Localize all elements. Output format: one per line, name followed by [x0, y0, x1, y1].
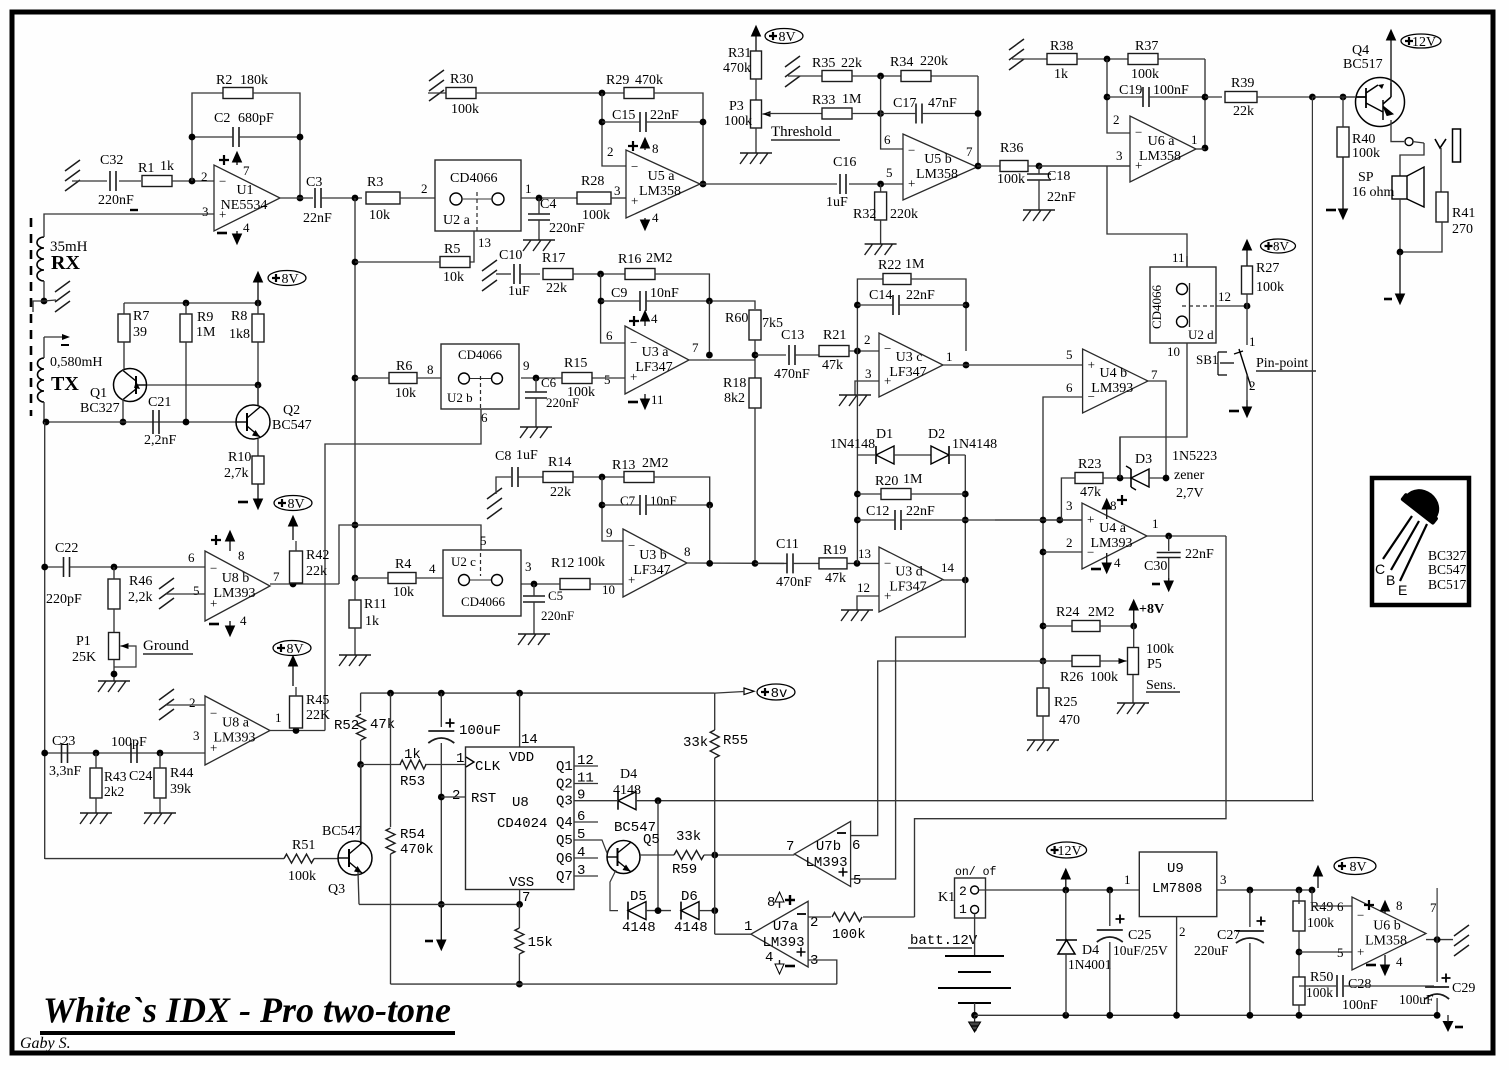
wire [849, 183, 903, 185]
node [157, 750, 164, 757]
svg-text:22k: 22k [550, 485, 571, 500]
resistor R7 39 [118, 314, 130, 342]
svg-text:Q5: Q5 [643, 832, 660, 848]
wire block rails [856, 455, 858, 520]
node [877, 73, 884, 80]
ground R44 [144, 813, 176, 824]
capacitor C32 220nF [110, 171, 116, 191]
resistor R36 100k [1000, 161, 1028, 172]
wire [755, 79, 757, 100]
op-amp U4a LM393 [1082, 503, 1147, 569]
wire out rail [708, 301, 710, 355]
svg-text:SP: SP [1358, 170, 1374, 185]
svg-text:R13: R13 [612, 458, 635, 473]
wire R33 row [767, 113, 822, 115]
capacitor 100uF electrolytic [440, 693, 442, 727]
node [599, 90, 606, 97]
node [1340, 94, 1347, 101]
svg-text:100k: 100k [1256, 280, 1284, 295]
svg-text:470k: 470k [635, 73, 663, 88]
wire Q3 collector [360, 765, 362, 843]
svg-text:R39: R39 [1231, 76, 1254, 91]
svg-text:3: 3 [810, 953, 818, 969]
svg-text:22K: 22K [306, 708, 330, 723]
svg-text:12: 12 [857, 580, 870, 595]
node [963, 302, 970, 309]
node [599, 119, 606, 126]
svg-text:100pF: 100pF [111, 735, 147, 750]
node [962, 517, 969, 524]
svg-text:LM358: LM358 [916, 167, 958, 182]
svg-text:C4: C4 [540, 197, 556, 212]
wire U6b pin5 row [1299, 951, 1352, 953]
svg-text:BC517: BC517 [1428, 577, 1467, 592]
wire pin10 [590, 583, 623, 585]
svg-text:8: 8 [427, 362, 434, 377]
svg-text:6: 6 [481, 410, 488, 425]
svg-text:9: 9 [523, 358, 530, 373]
svg-text:NE5534: NE5534 [221, 198, 268, 213]
op-amp U6a LM358 [1130, 116, 1196, 182]
svg-text:10k: 10k [369, 208, 390, 223]
capacitor C6 220nF [525, 392, 547, 398]
wire U6b out up [1352, 890, 1437, 940]
svg-text:C28: C28 [1348, 977, 1371, 992]
wire [521, 583, 560, 585]
supply rail wire [124, 302, 258, 304]
svg-text:1k: 1k [365, 614, 379, 629]
svg-text:4: 4 [651, 311, 658, 326]
U8b pin8 arrow [229, 539, 231, 551]
TX direction arrow [44, 336, 62, 338]
wire [123, 303, 125, 314]
resistor R53 1k [400, 760, 426, 769]
wire feedback left [192, 93, 224, 181]
wire R53 row [361, 764, 401, 766]
svg-text:13: 13 [858, 546, 871, 561]
svg-text:U6 b: U6 b [1373, 919, 1401, 934]
svg-text:3: 3 [193, 728, 200, 743]
node [183, 300, 190, 307]
op-amp U3d LF347 [879, 547, 943, 612]
svg-text:13: 13 [478, 235, 491, 250]
svg-text:4148: 4148 [674, 920, 708, 936]
svg-text:1k: 1k [160, 159, 174, 174]
wire C11 row [755, 562, 784, 564]
resistor 15k [515, 928, 524, 954]
svg-text:5: 5 [886, 165, 893, 180]
wire VSS row [359, 903, 520, 905]
svg-text:12V: 12V [1412, 35, 1436, 50]
svg-text:1: 1 [1152, 516, 1159, 531]
node [293, 727, 300, 734]
wire U8a pin3 row [45, 752, 205, 754]
wire fb left rail [856, 351, 858, 563]
svg-text:4: 4 [1396, 954, 1403, 969]
node [1247, 1012, 1254, 1019]
switch K1 [955, 878, 986, 918]
wire [355, 577, 388, 579]
svg-text:R38: R38 [1050, 39, 1073, 54]
svg-text:470k: 470k [723, 61, 751, 76]
wire P3 bottom [755, 128, 757, 153]
+8v oval [757, 684, 795, 700]
IC U2a CD4066 [435, 160, 521, 231]
minus arrow 100uF [440, 904, 442, 942]
svg-text:100nF: 100nF [1153, 83, 1189, 98]
wire U5b out [977, 165, 1000, 167]
wire pin12 [1216, 305, 1247, 307]
node [1296, 887, 1303, 894]
svg-text:on/ of: on/ of [955, 866, 997, 879]
svg-text:R33: R33 [812, 93, 835, 108]
resistor 100k (U7a pin2) [832, 913, 862, 922]
svg-text:10nF: 10nF [650, 286, 679, 301]
resistor R1 1k [142, 176, 172, 187]
hatch U8a pin2 [159, 689, 174, 720]
+8v arrow head [744, 688, 754, 695]
svg-text:22k: 22k [546, 281, 567, 296]
node [352, 522, 359, 529]
svg-text:220nF: 220nF [98, 193, 134, 208]
wire U7b pin6 [851, 835, 878, 837]
svg-text:R49: R49 [1310, 900, 1333, 915]
svg-text:R12: R12 [551, 556, 574, 571]
wire TX row [46, 421, 236, 423]
wire [360, 740, 362, 765]
svg-text:4148: 4148 [622, 920, 656, 936]
svg-text:4148: 4148 [613, 783, 641, 798]
resistor R34 220k [901, 71, 931, 82]
wire U2d pin10 [1120, 343, 1187, 478]
resistor R17 22k [543, 269, 573, 280]
wire R23 left [1061, 478, 1075, 520]
resistor R44 39k [154, 768, 166, 798]
resistor R13 2M2 [624, 472, 654, 483]
svg-text:P3: P3 [729, 99, 744, 114]
wire U7a out [715, 933, 751, 935]
RX coil 35mH [37, 237, 44, 281]
svg-text:2,7V: 2,7V [1176, 486, 1204, 501]
node [877, 110, 884, 117]
transistor Q3 BC547 [338, 841, 372, 875]
resistor R28 100k [577, 192, 611, 204]
svg-text:VDD: VDD [509, 750, 534, 766]
resistor R32 220k [875, 192, 887, 220]
node [255, 300, 262, 307]
svg-text:D4: D4 [1082, 943, 1099, 958]
svg-text:1k8: 1k8 [229, 327, 250, 342]
wire battery bottom [974, 1003, 976, 1015]
svg-text:−: − [210, 561, 217, 576]
diode D5 4148 [627, 902, 629, 920]
svg-text:Q7: Q7 [556, 869, 573, 885]
wire D4 node down [657, 801, 659, 911]
svg-text:R60: R60 [725, 311, 748, 326]
node [516, 690, 523, 697]
wire [788, 75, 822, 77]
node [1202, 145, 1209, 152]
wire Q4 emitter to jack [1391, 120, 1404, 142]
svg-text:R31: R31 [728, 46, 751, 61]
svg-text:8V: 8V [287, 497, 304, 512]
svg-text:LM393: LM393 [762, 935, 804, 951]
svg-text:TX: TX [51, 373, 79, 395]
wire Q4 base [1312, 96, 1356, 98]
capacitor C23 3,3nF [62, 743, 68, 763]
svg-text:R59: R59 [672, 862, 697, 878]
resistor R60 7k5 [749, 310, 761, 340]
bottom power rail [975, 1014, 1438, 1016]
node [655, 907, 662, 914]
svg-text:+: + [908, 176, 915, 191]
node [1309, 94, 1316, 101]
svg-text:1N4148: 1N4148 [830, 437, 875, 452]
svg-text:3: 3 [202, 204, 209, 219]
node [963, 362, 970, 369]
wire U7b out [715, 854, 795, 856]
wire U8b out [270, 583, 339, 585]
svg-text:C5: C5 [548, 588, 563, 603]
resistor R22 1M [883, 274, 911, 285]
svg-text:−: − [1135, 125, 1142, 140]
wire R26 row to U7b pin6 riser [851, 661, 1043, 836]
wire [390, 854, 392, 984]
wire Q1 collector [122, 399, 124, 422]
svg-text:2: 2 [452, 788, 460, 804]
potentiometer P1 25K [109, 633, 120, 660]
wire Q2 emitter [257, 439, 259, 456]
svg-text:22nF: 22nF [906, 288, 935, 303]
svg-text:2: 2 [421, 181, 428, 196]
svg-text:4: 4 [429, 561, 436, 576]
node [438, 690, 445, 697]
svg-text:10uF/25V: 10uF/25V [1113, 943, 1168, 958]
hatch U6b out [1454, 925, 1469, 956]
svg-text:U2 a: U2 a [443, 213, 471, 228]
svg-text:220nF: 220nF [546, 395, 579, 410]
IC U8 CD4024 [466, 747, 575, 890]
svg-text:10k: 10k [443, 270, 464, 285]
U4a pin8 arrow [1106, 507, 1108, 519]
+12V oval [1401, 34, 1441, 48]
node [706, 352, 713, 359]
svg-text:1: 1 [1124, 872, 1131, 887]
capacitor C29 100uF [1425, 986, 1449, 988]
svg-text:C14: C14 [869, 288, 892, 303]
svg-text:C17: C17 [893, 96, 916, 111]
resistor R15 100k [562, 373, 592, 384]
svg-text:C27: C27 [1217, 928, 1240, 943]
svg-text:6: 6 [852, 838, 860, 854]
wire [45, 566, 63, 568]
svg-text:R27: R27 [1256, 261, 1279, 276]
IC U9 LM7808 [1139, 852, 1217, 917]
svg-text:R6: R6 [396, 359, 412, 374]
svg-text:D1: D1 [876, 427, 893, 442]
wire U9 pin2 [1176, 917, 1178, 1016]
svg-text:8: 8 [652, 141, 659, 156]
wire [849, 350, 879, 352]
node [1130, 623, 1137, 630]
svg-text:22k: 22k [841, 56, 862, 71]
wire K1 pin2 out [979, 889, 1140, 891]
svg-text:U2 b: U2 b [447, 390, 473, 405]
node [357, 761, 364, 768]
svg-text:D4: D4 [620, 767, 637, 782]
wire R52 to Q3 collector [360, 765, 362, 846]
svg-text:4: 4 [240, 613, 247, 628]
wire tone rail up [1313, 97, 1315, 801]
svg-text:5: 5 [604, 372, 611, 387]
svg-text:C8: C8 [495, 449, 511, 464]
wire [535, 378, 537, 392]
svg-text:1M: 1M [196, 325, 216, 340]
svg-text:+8V: +8V [1139, 602, 1164, 617]
svg-text:1M: 1M [842, 92, 862, 107]
IC U2b CD4066 [441, 344, 519, 409]
wire pin2 branch [602, 93, 626, 166]
svg-text:White`s IDX - Pro two-tone: White`s IDX - Pro two-tone [43, 990, 451, 1030]
node [536, 195, 543, 202]
wire [573, 273, 626, 275]
ground R11 [339, 655, 371, 666]
svg-text:+: + [1357, 944, 1364, 959]
svg-text:R46: R46 [129, 574, 152, 589]
svg-text:3: 3 [525, 559, 532, 574]
node [352, 575, 359, 582]
capacitor C14 22nF [893, 295, 899, 315]
wire SP bottom [1399, 199, 1401, 252]
op-amp U5a LM358 [626, 150, 700, 218]
node [1104, 56, 1111, 63]
wire bottom bus [391, 983, 837, 985]
svg-text:6: 6 [188, 550, 195, 565]
svg-text:100nF: 100nF [1342, 998, 1378, 1013]
svg-text:39: 39 [133, 325, 147, 340]
wire [654, 477, 710, 505]
svg-text:100uF: 100uF [1399, 992, 1434, 1007]
svg-text:U5 b: U5 b [924, 152, 952, 167]
node [962, 491, 969, 498]
resistor R59 33k [674, 851, 704, 860]
hatch ground R38 [1009, 39, 1024, 70]
node [1106, 887, 1113, 894]
transistor pinout inset box [1372, 478, 1469, 605]
transistor Q2 BC547 [236, 405, 270, 439]
resistor R43 2k2 [90, 768, 102, 798]
node [1104, 94, 1111, 101]
TX coil 0,580mH [38, 358, 45, 402]
svg-text:4: 4 [1114, 555, 1121, 570]
minus arrow R40 [1342, 157, 1344, 211]
svg-text:D5: D5 [630, 889, 647, 905]
svg-text:7: 7 [692, 340, 699, 355]
minus arrow SP [1399, 252, 1401, 296]
svg-text:33k: 33k [676, 829, 701, 845]
svg-text:8V: 8V [1349, 860, 1366, 875]
svg-text:C10: C10 [499, 248, 522, 263]
wire [518, 954, 520, 984]
capacitor C16 1uF [840, 174, 846, 194]
wire Q5 emitter [610, 870, 618, 911]
svg-text:C3: C3 [306, 175, 322, 190]
svg-text:5: 5 [853, 873, 861, 889]
svg-text:U5 a: U5 a [648, 169, 676, 184]
svg-text:2M2: 2M2 [642, 456, 668, 471]
svg-text:R7: R7 [133, 309, 149, 324]
svg-text:B: B [1386, 572, 1395, 588]
node [387, 690, 394, 697]
resistor R2 180k [223, 88, 253, 99]
resistor R9 1M [180, 314, 192, 342]
svg-text:U9: U9 [1167, 861, 1184, 877]
svg-text:R40: R40 [1352, 132, 1375, 147]
+8V oval R45 [273, 641, 311, 656]
wire [1298, 1005, 1300, 1015]
svg-text:U8 a: U8 a [222, 716, 250, 731]
svg-text:C25: C25 [1128, 928, 1151, 943]
potentiometer P3 100k [751, 100, 762, 128]
+8V arrow R27 [1246, 248, 1248, 266]
svg-text:47k: 47k [822, 358, 843, 373]
svg-text:2: 2 [1066, 535, 1073, 550]
capacitor C18 22nF [1027, 174, 1051, 180]
svg-text:Q1: Q1 [90, 386, 107, 401]
node [599, 474, 606, 481]
svg-text:220k: 220k [890, 207, 918, 222]
capacitor C3 22nF [315, 188, 321, 208]
wire [1038, 166, 1040, 174]
node [854, 491, 861, 498]
wire [119, 180, 141, 182]
svg-text:R2: R2 [216, 73, 232, 88]
svg-text:R3: R3 [367, 175, 383, 190]
svg-text:U1: U1 [236, 183, 253, 198]
wire pin2 branch [1107, 59, 1130, 133]
svg-text:D3: D3 [1135, 452, 1152, 467]
wire U3d route to U7b pin5 [851, 580, 966, 879]
resistor R5 10k [440, 257, 470, 268]
svg-text:10: 10 [1167, 344, 1180, 359]
node [1036, 163, 1043, 170]
wire R18 bottom [754, 408, 756, 563]
wire [601, 300, 640, 302]
node [111, 564, 118, 571]
svg-text:R54: R54 [400, 827, 425, 843]
svg-text:R25: R25 [1054, 695, 1077, 710]
svg-text:0,580mH: 0,580mH [50, 355, 103, 370]
svg-text:100k: 100k [1090, 670, 1118, 685]
svg-text:C2: C2 [214, 111, 230, 126]
svg-text:LM358: LM358 [1139, 149, 1181, 164]
svg-text:−: − [631, 159, 638, 174]
svg-text:BC547: BC547 [1428, 562, 1467, 577]
svg-text:270: 270 [1452, 222, 1473, 237]
svg-text:U2 c: U2 c [451, 554, 476, 569]
wire U3c pin3 [855, 381, 879, 395]
node [297, 134, 304, 141]
svg-text:R51: R51 [292, 838, 315, 853]
wire SB1 bottom [1246, 375, 1248, 400]
svg-text:LF347: LF347 [889, 365, 926, 380]
resistor R29 470k [624, 88, 654, 99]
svg-text:10nF: 10nF [650, 493, 677, 508]
wire C30 [1168, 536, 1170, 551]
wire [709, 505, 711, 563]
node [1434, 1012, 1441, 1019]
svg-text:U3 c: U3 c [896, 350, 923, 365]
